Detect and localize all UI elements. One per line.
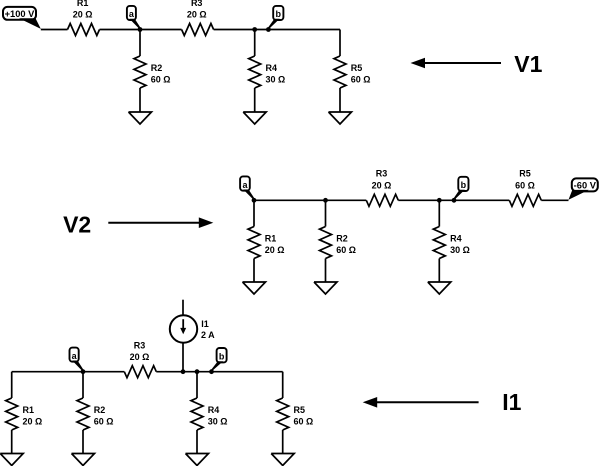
svg-text:60 Ω: 60 Ω xyxy=(351,75,371,85)
svg-text:60 Ω: 60 Ω xyxy=(515,180,535,190)
svg-text:R4: R4 xyxy=(266,63,278,73)
svg-text:20 Ω: 20 Ω xyxy=(265,245,285,255)
svg-text:R2: R2 xyxy=(151,63,163,73)
svg-text:I1: I1 xyxy=(201,319,209,329)
svg-text:2 A: 2 A xyxy=(201,330,215,340)
svg-text:R4: R4 xyxy=(208,405,220,415)
svg-text:20 Ω: 20 Ω xyxy=(187,10,207,20)
svg-text:b: b xyxy=(219,352,225,362)
svg-text:b: b xyxy=(461,180,467,190)
svg-text:30 Ω: 30 Ω xyxy=(450,245,470,255)
svg-text:R2: R2 xyxy=(336,234,348,244)
svg-text:60 Ω: 60 Ω xyxy=(336,245,356,255)
svg-text:R4: R4 xyxy=(450,234,462,244)
svg-text:R5: R5 xyxy=(351,63,363,73)
svg-text:60 Ω: 60 Ω xyxy=(294,417,314,427)
svg-text:R1: R1 xyxy=(23,405,35,415)
svg-text:R3: R3 xyxy=(376,169,388,179)
svg-text:20 Ω: 20 Ω xyxy=(73,10,93,20)
svg-text:V1: V1 xyxy=(514,51,542,77)
svg-text:20 Ω: 20 Ω xyxy=(130,352,150,362)
svg-text:V2: V2 xyxy=(63,212,91,238)
svg-text:b: b xyxy=(276,9,282,19)
svg-text:R5: R5 xyxy=(294,405,306,415)
svg-text:-60 V: -60 V xyxy=(574,181,597,191)
svg-text:R1: R1 xyxy=(77,0,89,8)
svg-text:30 Ω: 30 Ω xyxy=(208,417,228,427)
svg-text:I1: I1 xyxy=(502,389,521,415)
svg-text:30 Ω: 30 Ω xyxy=(266,75,286,85)
svg-text:R3: R3 xyxy=(191,0,203,8)
svg-text:60 Ω: 60 Ω xyxy=(151,75,171,85)
svg-text:+100 V: +100 V xyxy=(5,9,36,19)
svg-text:R2: R2 xyxy=(94,405,106,415)
svg-text:R5: R5 xyxy=(519,169,531,179)
svg-text:60 Ω: 60 Ω xyxy=(94,417,114,427)
svg-text:R3: R3 xyxy=(134,340,146,350)
svg-text:R1: R1 xyxy=(265,234,277,244)
svg-text:20 Ω: 20 Ω xyxy=(372,180,392,190)
svg-text:20 Ω: 20 Ω xyxy=(23,417,43,427)
